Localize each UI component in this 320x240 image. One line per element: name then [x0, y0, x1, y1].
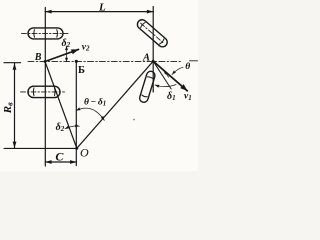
wheel rear-right (bottom-left) [21, 86, 65, 97]
svg-text:Б: Б [78, 65, 85, 76]
svg-text:A: A [142, 52, 150, 63]
scan speck [133, 119, 135, 121]
node O [75, 147, 78, 150]
node Б dot [75, 60, 78, 63]
angle delta2 leader at B [66, 46, 68, 62]
svg-text:θ: θ [185, 62, 190, 72]
front axle vertical line [152, 7, 154, 93]
dimension C [45, 161, 76, 163]
delta1 arc upper arrow [164, 71, 169, 78]
node B [44, 60, 47, 63]
theta leader arc [172, 67, 183, 74]
vehicle axis (dash-dot through B and A) [28, 60, 183, 62]
rear axle vertical line [44, 8, 46, 167]
svg-text:θ−δ1: θ−δ1 [84, 97, 106, 107]
svg-text:O: O [80, 146, 89, 160]
arc delta2 at O [65, 126, 79, 129]
svg-text:B: B [34, 52, 42, 63]
Rv top tick [4, 62, 21, 64]
line A-O (perpendicular to v1) [77, 61, 153, 148]
node A [152, 60, 155, 63]
wheel front-left (top-right, steered) [135, 18, 169, 49]
delta1 arc lower arrow [155, 85, 176, 87]
svg-text:v2: v2 [82, 42, 90, 52]
wheel-plane line (theta direction) at A [153, 61, 171, 89]
wheel rear-left (top-left) [22, 28, 69, 39]
axis continuation right of theta [190, 60, 198, 62]
svg-text:C: C [55, 149, 64, 163]
turning radius Rv dimension line [14, 63, 16, 147]
vertical from node Б through O to dim C [75, 61, 77, 165]
velocity v2 arrow at B [45, 49, 79, 61]
velocity v1 arrow at A [153, 61, 187, 91]
line B-O (perpendicular to v2) [45, 62, 77, 149]
wheel front-right (bottom-right, steered) [139, 70, 156, 103]
baseline through O [4, 147, 77, 149]
svg-text:v1: v1 [184, 92, 192, 102]
arc theta minus delta1 at O [76, 108, 104, 120]
dimension L [45, 11, 153, 13]
svg-text:L: L [98, 2, 106, 14]
